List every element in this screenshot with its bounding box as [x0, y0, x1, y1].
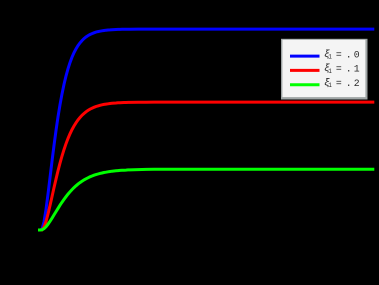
svg-text:1: 1: [328, 68, 332, 75]
svg-text:=.1: =.1: [336, 64, 360, 75]
legend label xi_1 = .1: [324, 63, 360, 75]
svg-text:1: 1: [328, 82, 332, 89]
legend swatch red: [290, 69, 320, 72]
svg-text:1: 1: [328, 54, 332, 61]
curve xi1=.2 (green): [38, 169, 374, 230]
legend swatch blue: [290, 55, 320, 58]
legend label xi_1 = .0: [324, 49, 360, 61]
legend swatch green: [290, 83, 320, 86]
legend border (thicker on bottom/right): [281, 39, 368, 100]
legend label xi_1 = .2: [324, 78, 360, 90]
curve xi1=.1 (red): [38, 102, 374, 230]
svg-text:=.0: =.0: [336, 49, 360, 60]
curve xi1=.0 (blue): [38, 29, 374, 230]
legend box face: [282, 40, 365, 97]
svg-text:=.2: =.2: [336, 78, 360, 89]
